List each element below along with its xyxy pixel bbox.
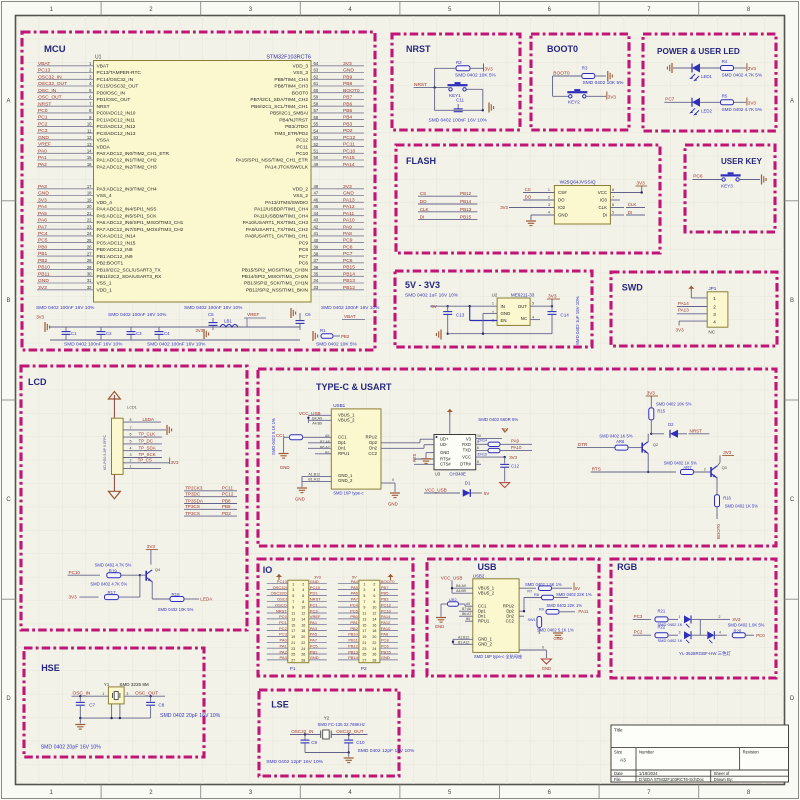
svg-text:OSC_OUT: OSC_OUT	[135, 691, 158, 697]
svg-text:41: 41	[314, 231, 319, 236]
svg-text:PB0: PB0	[350, 614, 358, 619]
svg-text:4: 4	[302, 588, 304, 592]
svg-text:PC5: PC5	[350, 608, 359, 613]
capacitor C4	[155, 327, 171, 340]
svg-text:PA11: PA11	[578, 609, 589, 614]
svg-text:A4:B9: A4:B9	[456, 589, 466, 593]
U1 pin 31 (VSS_1)	[37, 278, 112, 287]
resistor R16	[715, 495, 759, 519]
svg-text:RPU1: RPU1	[338, 451, 350, 456]
wire USB2 shield right	[519, 646, 546, 659]
resistor R3	[582, 66, 624, 87]
capacitor C14	[548, 306, 570, 334]
U1 pin 19 (VDD_4)	[37, 197, 112, 206]
svg-text:GND: GND	[388, 502, 398, 507]
LCD pin 1 wire	[123, 464, 161, 468]
svg-text:B5: B5	[466, 617, 470, 621]
svg-text:GND: GND	[554, 636, 563, 641]
U1 pin 11 (PC3/ADC12_IN13)	[37, 128, 136, 137]
pushbutton KEY3	[721, 172, 741, 188]
U1 pin 12 (VSSA)	[37, 135, 110, 144]
U1 pin 21 (PA5:ADC12_IN5/SPI1_SCK)	[37, 211, 157, 220]
svg-text:3V3: 3V3	[38, 197, 47, 203]
svg-text:PB12: PB12	[348, 644, 359, 649]
svg-text:GND: GND	[310, 655, 319, 660]
svg-text:SMD 0402 4.7K 5%: SMD 0402 4.7K 5%	[90, 582, 127, 587]
svg-text:PA7: PA7	[310, 638, 318, 643]
svg-text:16: 16	[301, 623, 305, 627]
svg-text:PA7:ADC12_IN7/SPI1_MOSI/TIM3_C: PA7:ADC12_IN7/SPI1_MOSI/TIM3_CH2	[97, 227, 184, 233]
svg-text:SMD 0402 20pF 16V 10%: SMD 0402 20pF 16V 10%	[160, 713, 221, 719]
svg-text:49: 49	[314, 162, 319, 167]
svg-text:PC1: PC1	[279, 620, 288, 625]
svg-text:PB1: PB1	[38, 251, 48, 257]
svg-text:PA3: PA3	[310, 626, 318, 631]
svg-text:PB13: PB13	[460, 207, 472, 212]
svg-text:PC3: PC3	[279, 632, 288, 637]
svg-text:37: 37	[314, 258, 319, 263]
svg-text:PB4: PB4	[343, 115, 353, 121]
svg-text:PC5:ADC12_IN15: PC5:ADC12_IN15	[97, 240, 136, 246]
svg-text:64: 64	[314, 61, 319, 66]
U1 pin 3 (PC14/OSC32_IN)	[37, 74, 134, 83]
svg-text:5V: 5V	[431, 304, 438, 309]
svg-text:PC10: PC10	[381, 608, 392, 613]
svg-text:PC5: PC5	[38, 238, 48, 244]
svg-text:CH340E: CH340E	[449, 472, 466, 477]
svg-text:PC15: PC15	[310, 585, 321, 590]
5V-3V3 block title	[405, 280, 440, 290]
svg-text:GND: GND	[295, 497, 305, 502]
svg-text:14: 14	[301, 618, 305, 622]
svg-text:PA5:ADC12_IN5/SPI1_SCK: PA5:ADC12_IN5/SPI1_SCK	[97, 213, 158, 219]
svg-text:BOOT0: BOOT0	[292, 90, 309, 96]
U1 pin 24 (PC4:ADC12_IN14)	[37, 231, 136, 240]
svg-text:1/18/2024: 1/18/2024	[639, 771, 658, 776]
svg-text:47: 47	[314, 191, 319, 196]
svg-text:PA3: PA3	[280, 655, 288, 660]
svg-text:4: 4	[373, 588, 375, 592]
svg-text:RPU2: RPU2	[366, 435, 378, 440]
wire R19 to base	[121, 574, 146, 576]
svg-text:PA3: PA3	[38, 184, 47, 190]
ground (USB1 bottom)	[295, 488, 307, 502]
svg-text:22: 22	[87, 218, 92, 223]
svg-text:R15: R15	[657, 408, 665, 413]
svg-text:13: 13	[362, 618, 366, 622]
value text C10	[358, 748, 415, 754]
svg-text:PB12: PB12	[343, 285, 355, 291]
svg-text:51: 51	[314, 149, 319, 154]
TYPE-C & USART block border	[258, 369, 776, 546]
svg-text:POWER & USER LED: POWER & USER LED	[657, 47, 740, 56]
svg-text:PC13: PC13	[277, 579, 288, 584]
net label TP3CS - port PD2	[184, 511, 237, 516]
USB block title	[478, 562, 498, 572]
svg-text:23: 23	[291, 647, 295, 651]
svg-text:TP_SCK: TP_SCK	[139, 452, 156, 457]
svg-text:C10: C10	[356, 740, 365, 745]
svg-text:PA11: PA11	[343, 211, 355, 217]
ground (NRST)	[489, 103, 494, 113]
svg-text:PD1/OSC_OUT: PD1/OSC_OUT	[97, 97, 131, 103]
svg-text:SMD 3225 8M: SMD 3225 8M	[119, 682, 149, 687]
svg-text:R21: R21	[658, 609, 666, 614]
FLASH block border	[396, 145, 660, 253]
svg-text:21: 21	[87, 211, 92, 216]
svg-text:PC2/ADC12_IN12: PC2/ADC12_IN12	[97, 124, 136, 130]
svg-text:SMD 0402 20pF 16V 10%: SMD 0402 20pF 16V 10%	[41, 745, 102, 751]
svg-text:53: 53	[314, 135, 319, 140]
svg-text:SMD 0402 5.1K 1%: SMD 0402 5.1K 1%	[537, 628, 574, 633]
svg-text:SMD 0402 1K 5%: SMD 0402 1K 5%	[725, 504, 759, 509]
svg-text:3: 3	[713, 312, 716, 317]
svg-text:C14: C14	[560, 313, 569, 318]
svg-text:3: 3	[126, 692, 128, 696]
svg-text:A5: A5	[466, 602, 470, 606]
svg-text:R8: R8	[534, 593, 539, 597]
ground (flash)	[526, 221, 536, 226]
TYPE-C & USART block title	[316, 382, 392, 392]
svg-text:Drawn By:: Drawn By:	[714, 777, 733, 782]
resistor R5	[721, 94, 762, 112]
capacitor C7	[76, 696, 96, 718]
svg-text:C: C	[6, 497, 11, 503]
svg-text:GND: GND	[310, 579, 319, 584]
ground (HSE)	[75, 718, 85, 729]
svg-text:3V3: 3V3	[171, 460, 179, 465]
U1 pin 25 (PC5:ADC12_IN15)	[37, 238, 136, 247]
svg-text:RTS#: RTS#	[440, 456, 451, 461]
net label NRST	[414, 82, 449, 89]
svg-text:PA2: PA2	[280, 649, 288, 654]
svg-text:3V3: 3V3	[500, 205, 508, 210]
svg-text:VDD_3: VDD_3	[293, 64, 309, 70]
svg-text:6: 6	[477, 460, 479, 464]
svg-text:45: 45	[314, 204, 319, 209]
svg-text:PB15/SPI2_MOSI/TIM1_CH3N: PB15/SPI2_MOSI/TIM1_CH3N	[242, 267, 309, 273]
svg-text:16: 16	[372, 623, 376, 627]
svg-text:PA5: PA5	[38, 211, 47, 217]
svg-text:PA12: PA12	[343, 204, 355, 210]
svg-text:BOOT0: BOOT0	[343, 88, 360, 94]
svg-text:PC1: PC1	[310, 602, 319, 607]
svg-text:7: 7	[612, 196, 614, 200]
svg-text:PD0/OSC_IN: PD0/OSC_IN	[97, 90, 126, 96]
svg-text:PC3: PC3	[38, 128, 48, 134]
svg-text:LCD: LCD	[28, 377, 47, 387]
svg-text:4: 4	[532, 316, 534, 320]
svg-text:24: 24	[301, 647, 305, 651]
svg-text:GND: GND	[501, 311, 511, 316]
U1 pin 42 (PA9/USART1_TX/TIM1_CH2)	[246, 224, 364, 233]
svg-text:B: B	[6, 298, 10, 304]
svg-text:LED2: LED2	[701, 108, 713, 113]
svg-text:C13: C13	[456, 313, 465, 318]
svg-text:CLK: CLK	[420, 207, 430, 212]
U1 pin 56 (PB4/NJTRST)	[279, 115, 364, 124]
svg-text:PB15: PB15	[343, 265, 355, 271]
power flag VBAT	[342, 314, 365, 320]
CH340E chip U3	[434, 435, 476, 477]
U1 pin 58 (PB6/I2C1_SCL/TIM4_CH1)	[251, 101, 364, 110]
capacitor C10	[344, 735, 365, 753]
svg-text:26: 26	[372, 653, 376, 657]
wire Q2 collector/emitter	[647, 454, 649, 474]
wire KEY1 right	[467, 89, 483, 110]
svg-text:4: 4	[130, 446, 132, 450]
value text C9	[266, 759, 323, 765]
MCU decoupling value text row 2	[64, 342, 206, 348]
IO block title	[263, 565, 273, 575]
power flag 5V (CH340 vcc top)	[502, 427, 508, 432]
svg-text:B4:A9: B4:A9	[312, 416, 322, 420]
svg-text:PC2: PC2	[279, 626, 288, 631]
net label TP3SDA - port PB8	[184, 498, 237, 503]
svg-text:PC12: PC12	[296, 138, 308, 144]
svg-text:PB8: PB8	[343, 81, 353, 87]
svg-text:PC8: PC8	[343, 245, 353, 251]
svg-text:PD2: PD2	[343, 128, 353, 134]
svg-text:CS: CS	[525, 187, 531, 192]
svg-text:NRST: NRST	[414, 82, 427, 88]
svg-text:OUT: OUT	[518, 304, 528, 309]
svg-text:GND: GND	[343, 191, 354, 197]
svg-text:PA4: PA4	[38, 204, 47, 210]
svg-text:PB7: PB7	[381, 585, 389, 590]
U1 pin 14 (PA0:ADC12_IN0/TIM2_CH1_ETR)	[37, 148, 169, 157]
power flag 3V3 (decoupling rail)	[36, 315, 49, 333]
svg-text:PC7: PC7	[665, 97, 674, 102]
svg-text:PC6: PC6	[343, 258, 353, 264]
svg-text:21: 21	[291, 641, 295, 645]
svg-text:11: 11	[291, 612, 295, 616]
svg-text:PC1: PC1	[38, 115, 48, 121]
svg-text:PB5: PB5	[343, 108, 353, 114]
resistor CR15 (RXD)	[478, 445, 532, 456]
svg-text:40: 40	[314, 238, 319, 243]
svg-text:Q2: Q2	[653, 443, 658, 447]
svg-text:42: 42	[314, 224, 319, 229]
svg-text:18: 18	[372, 629, 376, 633]
svg-text:PA13: PA13	[343, 197, 355, 203]
wire VBUS (USB1)	[307, 415, 331, 425]
svg-text:VSS_4: VSS_4	[97, 193, 112, 199]
svg-text:OSC32_OUT: OSC32_OUT	[336, 729, 364, 734]
capacitor C12	[500, 457, 519, 482]
capacitor C1	[62, 327, 78, 340]
svg-text:PB5: PB5	[381, 591, 389, 596]
svg-text:TP2CK3: TP2CK3	[185, 486, 203, 491]
svg-text:VSS_2: VSS_2	[293, 193, 308, 199]
title block	[611, 725, 789, 782]
svg-text:PA5: PA5	[310, 632, 318, 637]
svg-text:NRST: NRST	[97, 104, 110, 110]
SWD block title	[622, 283, 643, 293]
wire LED1 left	[673, 67, 692, 69]
svg-text:R2: R2	[456, 60, 462, 65]
U1 pin 43 (PA10/USART1_RX/TIM1_CH3)	[243, 218, 364, 227]
svg-text:1: 1	[292, 582, 294, 586]
svg-text:VDD_2: VDD_2	[293, 187, 309, 193]
svg-text:D1: D1	[465, 480, 471, 485]
connector USB1 (type-c)	[331, 403, 381, 496]
svg-text:PA10/USART1_RX/TIM1_CH3: PA10/USART1_RX/TIM1_CH3	[243, 220, 309, 226]
svg-text:A3: A3	[620, 758, 626, 763]
RGB block title	[617, 562, 638, 572]
value text vertical (CC 5.1K)	[271, 418, 276, 455]
svg-text:PC8: PC8	[299, 247, 309, 253]
resistor R20	[728, 623, 766, 638]
svg-text:2: 2	[373, 582, 375, 586]
svg-text:PA1: PA1	[38, 155, 47, 161]
svg-text:PB2: PB2	[350, 626, 358, 631]
svg-text:PD1: PD1	[310, 591, 319, 596]
svg-text:PC9: PC9	[343, 238, 353, 244]
svg-text:R5: R5	[722, 94, 728, 99]
svg-text:PA14: PA14	[343, 162, 355, 168]
svg-text:Revision: Revision	[743, 750, 760, 755]
svg-text:TYPE-C & USART: TYPE-C & USART	[316, 382, 392, 392]
svg-text:20: 20	[372, 635, 376, 639]
net label BOOT0	[553, 70, 582, 76]
svg-text:52: 52	[314, 142, 319, 147]
wire U2 EN loop	[470, 306, 497, 334]
svg-text:3V3: 3V3	[676, 328, 685, 333]
U1 pin 64 (VDD_3)	[293, 61, 364, 70]
svg-text:SMD 0402 560R 5%: SMD 0402 560R 5%	[478, 417, 518, 422]
svg-text:17: 17	[362, 629, 366, 633]
svg-text:VBAT: VBAT	[97, 64, 109, 70]
svg-text:24: 24	[372, 647, 376, 651]
HSE block border	[24, 648, 204, 757]
net label TP3DC - port PC12	[184, 492, 237, 497]
svg-text:PA2: PA2	[38, 162, 47, 168]
svg-text:17: 17	[291, 629, 295, 633]
svg-text:1: 1	[102, 692, 104, 696]
svg-text:B7:A6: B7:A6	[462, 607, 471, 611]
svg-text:SW1: SW1	[527, 618, 535, 622]
svg-text:10: 10	[301, 606, 305, 610]
svg-text:TP3CS: TP3CS	[185, 511, 200, 516]
U1 pin 40 (PC9)	[299, 238, 364, 247]
net label PC10 (LCD)	[68, 570, 101, 575]
U1 pin 16 (PA2:ADC12_IN2/TIM2_CH3)	[37, 162, 157, 171]
POWER & USER LED block title	[657, 47, 740, 56]
svg-text:DI: DI	[628, 210, 632, 215]
svg-text:18: 18	[87, 191, 92, 196]
svg-text:Dp2: Dp2	[369, 440, 377, 445]
svg-text:32: 32	[87, 285, 92, 290]
svg-text:PC2: PC2	[38, 122, 48, 128]
U1 pin 60 (BOOT0)	[292, 88, 364, 97]
svg-text:PC3: PC3	[310, 608, 319, 613]
svg-text:27: 27	[87, 251, 92, 256]
svg-text:28: 28	[301, 659, 305, 663]
svg-text:PC3: PC3	[634, 614, 643, 619]
resistor R2	[455, 60, 497, 79]
svg-text:2: 2	[704, 468, 706, 472]
svg-text:SMD 0402 1uF 16V 10%: SMD 0402 1uF 16V 10%	[575, 296, 580, 345]
svg-text:LEDA: LEDA	[143, 417, 155, 422]
svg-text:TP3CS: TP3CS	[185, 504, 200, 509]
svg-text:PA0:ADC12_IN0/TIM2_CH1_ETR: PA0:ADC12_IN0/TIM2_CH1_ETR	[97, 151, 170, 157]
U1 pin 52 (PC11)	[296, 142, 364, 151]
svg-text:R22: R22	[658, 624, 666, 629]
svg-text:B6:A7: B6:A7	[462, 612, 471, 616]
svg-text:V3: V3	[466, 437, 472, 442]
svg-text:39: 39	[314, 245, 319, 250]
LCD pin 7 wire (GND)	[123, 425, 172, 435]
svg-text:PC4: PC4	[350, 602, 359, 607]
svg-text:3: 3	[548, 203, 550, 207]
svg-text:TXD: TXD	[463, 448, 471, 453]
ground (LED1 left)	[667, 63, 672, 73]
svg-text:VCC_USB: VCC_USB	[441, 576, 463, 581]
svg-text:PA15: PA15	[343, 155, 355, 161]
svg-text:PB13: PB13	[348, 649, 359, 654]
power flag 3V3 (Q3)	[717, 450, 734, 466]
wire LCD bottom + ground	[108, 474, 120, 498]
capacitor C11	[435, 88, 484, 112]
U1 pin 59 (PB7/I2C1_SDA/TIM4_CH2)	[250, 95, 364, 104]
svg-text:OSC32I: OSC32I	[273, 585, 287, 590]
svg-text:RPU1: RPU1	[478, 619, 490, 624]
svg-text:PC4:ADC12_IN14: PC4:ADC12_IN14	[97, 234, 136, 240]
svg-text:PB11: PB11	[348, 638, 358, 643]
svg-text:SMD 0402 10K 5%: SMD 0402 10K 5%	[316, 342, 358, 348]
svg-text:7: 7	[130, 426, 132, 430]
svg-text:PA2:ADC12_IN2/TIM2_CH3: PA2:ADC12_IN2/TIM2_CH3	[97, 164, 157, 170]
USB block border	[427, 559, 599, 676]
power flag 3V3 (R17)	[69, 595, 99, 600]
svg-text:P2: P2	[361, 666, 367, 671]
crystal Y2	[318, 716, 366, 740]
svg-text:JP1: JP1	[708, 286, 716, 291]
svg-text:PC10: PC10	[69, 570, 81, 575]
svg-text:3V3: 3V3	[485, 66, 494, 71]
svg-text:PB6/I2C1_SCL/TIM4_CH1: PB6/I2C1_SCL/TIM4_CH1	[251, 104, 308, 110]
svg-text:MCU: MCU	[44, 44, 66, 55]
U1 pin 36 (PB15/SPI2_MOSI/TIM1_CH3N)	[242, 265, 364, 274]
svg-text:VBAT: VBAT	[38, 61, 50, 67]
svg-text:23: 23	[362, 647, 366, 651]
svg-text:GND: GND	[381, 655, 390, 660]
svg-text:PB1: PB1	[310, 649, 318, 654]
svg-text:PC0: PC0	[38, 108, 48, 114]
net label OSC32_OUT	[331, 729, 367, 736]
svg-text:PA10: PA10	[511, 445, 522, 450]
svg-text:PA14:JTCK/SWCLK: PA14:JTCK/SWCLK	[265, 164, 309, 170]
svg-text:12: 12	[301, 612, 305, 616]
svg-text:Number: Number	[639, 750, 654, 755]
svg-text:0: 0	[542, 646, 544, 650]
svg-text:GND: GND	[38, 135, 49, 141]
svg-text:3: 3	[130, 453, 132, 457]
svg-text:6: 6	[373, 594, 375, 598]
svg-text:5: 5	[292, 594, 294, 598]
svg-text:PA6:ADC12_IN6/SPI1_MISO/TIM3_C: PA6:ADC12_IN6/SPI1_MISO/TIM3_CH1	[97, 220, 184, 226]
resistor R19	[107, 568, 121, 577]
U1 pin 47 (VSS_2)	[293, 191, 364, 200]
svg-text:U3: U3	[435, 472, 441, 477]
wire KEY2 to 3V3	[586, 92, 616, 100]
svg-text:Title: Title	[614, 728, 623, 733]
svg-text:5V - 3V3: 5V - 3V3	[405, 280, 440, 290]
svg-text:Y2: Y2	[324, 716, 330, 721]
U1 pin 54 (TIM3_ETR/PD2)	[274, 128, 364, 137]
svg-text:PB10/I2C2_SCL/USART3_TX: PB10/I2C2_SCL/USART3_TX	[97, 267, 162, 273]
